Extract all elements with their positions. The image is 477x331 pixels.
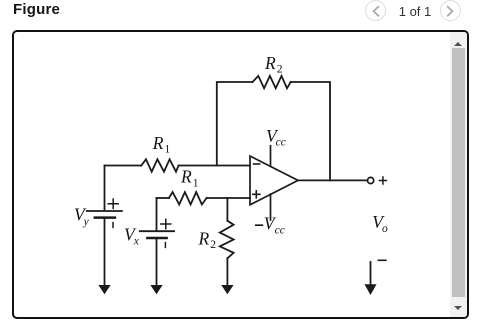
svg-text:o: o (382, 223, 388, 235)
svg-text:R: R (180, 167, 192, 187)
wire: Vx branch top vertical (156, 198, 158, 230)
output plus polarity sign (379, 177, 386, 184)
svg-text:R: R (198, 229, 210, 249)
output terminal node (368, 177, 374, 183)
output minus polarity sign (378, 259, 386, 261)
battery Vx top plate (140, 230, 174, 232)
wire: Vcc supply stub (270, 146, 272, 167)
svg-text:y: y (83, 216, 90, 228)
battery Vx bottom plate (147, 237, 166, 240)
svg-text:R: R (152, 133, 164, 153)
wire: feedback top-right and right vertical down to output (291, 82, 330, 180)
svg-text:2: 2 (277, 64, 283, 76)
svg-text:2: 2 (210, 239, 216, 251)
wire: Vx branch bottom vertical (156, 239, 158, 286)
battery Vy top plate (87, 210, 122, 212)
resistor R2 (feedback, top) (253, 76, 291, 88)
resistor R1 (non-inverting input) (169, 192, 207, 204)
wire: feedback left branch (inverting node up to top rail) (217, 82, 253, 166)
ground reference arrow (Vx branch) (151, 286, 161, 294)
op-amp inverting pin minus sign (254, 163, 260, 165)
resistor R1 (inverting input) (141, 159, 178, 171)
resistor R2 (shunt, vertical) (220, 221, 234, 258)
wire: inverting input segment from Vy corner to R1 (105, 165, 142, 167)
wire: -Vcc supply stub (270, 194, 272, 220)
wire: Vy branch bottom vertical (104, 219, 106, 286)
svg-text:cc: cc (275, 224, 285, 236)
wire: R2 shunt bottom vertical (226, 258, 228, 286)
svg-text:1: 1 (193, 177, 199, 189)
wire: non-inverting input from R1 to op-amp (207, 197, 250, 199)
op-amp non-inverting pin plus sign (253, 191, 260, 198)
battery Vy bottom plate (95, 216, 115, 219)
svg-text:R: R (264, 53, 276, 73)
wire: R2 shunt branch from non-inverting node down (226, 198, 228, 221)
op-amp U1 triangle (250, 156, 298, 205)
voltage reference arrow (Vo) (370, 262, 372, 285)
svg-text:1: 1 (165, 144, 171, 156)
label -Vcc (255, 224, 263, 226)
ground reference arrow (R2 branch) (222, 286, 232, 294)
ground reference arrow (Vy branch) (99, 286, 109, 294)
battery Vx plus sign (161, 219, 171, 228)
battery Vy minus tick (112, 223, 114, 228)
wire: non-inverting input from Vx corner to R1 (157, 197, 169, 199)
wire: inverting input segment from R1 to op-amp (179, 165, 250, 167)
battery Vy plus sign (108, 199, 118, 208)
battery Vx minus tick (164, 243, 166, 248)
wire: Vy branch top vertical (104, 166, 106, 211)
svg-text:x: x (133, 236, 140, 248)
svg-text:cc: cc (276, 137, 286, 149)
wire: output from op-amp to terminal (298, 179, 367, 181)
